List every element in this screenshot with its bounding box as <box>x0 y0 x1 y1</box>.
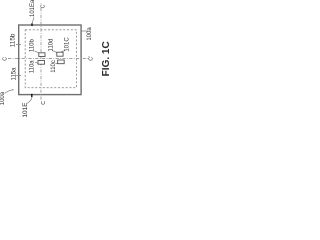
svg-text:101Ea: 101Ea <box>30 0 36 17</box>
svg-text:110a: 110a <box>30 60 36 74</box>
svg-text:FIG. 1C: FIG. 1C <box>101 41 112 76</box>
svg-text:115b: 115b <box>9 33 16 47</box>
svg-text:110d: 110d <box>49 39 55 52</box>
svg-text:101C: 101C <box>65 37 71 52</box>
svg-text:100a: 100a <box>0 91 6 105</box>
svg-text:100a: 100a <box>87 27 93 41</box>
svg-text:C': C' <box>89 56 95 61</box>
svg-text:110b: 110b <box>30 38 36 52</box>
svg-text:101E: 101E <box>22 102 29 118</box>
svg-text:C: C <box>2 57 8 61</box>
svg-text:115a: 115a <box>12 67 18 81</box>
svg-text:110c: 110c <box>51 60 57 73</box>
svg-text:C': C' <box>41 3 47 8</box>
svg-text:C: C <box>41 101 47 105</box>
